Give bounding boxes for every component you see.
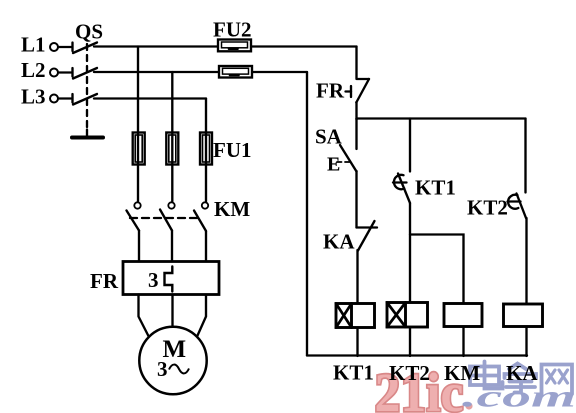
- time relay KT1 delayed NO contact: [393, 174, 410, 204]
- wire FR box to motor middle: [171, 295, 173, 328]
- watermark 21ic.com 电子网: [375, 362, 576, 413]
- wire KT1 branch from junction: [409, 119, 411, 172]
- terminal L1: [50, 43, 73, 52]
- wire phase L3 horizontal: [94, 97, 206, 99]
- wire phase L1 to control corner: [251, 45, 357, 47]
- contactor KM linkage (dashed): [130, 217, 200, 219]
- svg-text:L2: L2: [21, 58, 46, 82]
- svg-text:KT2: KT2: [389, 361, 430, 385]
- fuse FU2 pole 2: [219, 66, 252, 78]
- svg-text:3: 3: [148, 268, 159, 292]
- wire coil KT2 to bus: [409, 327, 411, 356]
- wire KT2 contact to coil KA: [525, 218, 527, 304]
- svg-text:FR: FR: [90, 269, 119, 293]
- contactor KM main contact pole 3: [194, 202, 208, 231]
- svg-text:QS: QS: [75, 20, 103, 44]
- svg-text:KT1: KT1: [415, 176, 456, 200]
- svg-text:KA: KA: [506, 361, 538, 385]
- svg-text:FU2: FU2: [213, 18, 252, 42]
- fuse FU1 pole 1: [133, 133, 145, 165]
- terminal L2: [50, 68, 73, 77]
- wire KM pole1 to FR box: [138, 231, 140, 262]
- thermal relay FR heater element symbol: [165, 267, 173, 292]
- wire drop phase 2: [171, 72, 173, 202]
- svg-text:KM: KM: [444, 361, 480, 385]
- motor M circle: [139, 327, 206, 394]
- wire SA to KA contact: [355, 171, 357, 228]
- svg-text:KT1: KT1: [333, 361, 374, 385]
- svg-text:3: 3: [157, 357, 168, 381]
- wire FR box to motor right: [196, 295, 207, 341]
- contactor KM main contact pole 1: [127, 202, 141, 230]
- fuse FU1 pole 2: [166, 133, 178, 165]
- wire bottom bus: [307, 354, 527, 356]
- wire control junction rail: [357, 117, 526, 119]
- fuse FU1 pole 3: [200, 133, 212, 165]
- wire coil KM to bus: [462, 327, 464, 357]
- wire drop phase 1: [137, 47, 139, 202]
- wire phase L1 horizontal: [94, 45, 218, 47]
- wire branch to KM coil: [410, 235, 464, 304]
- wire KT1 contact to coil KT2: [409, 203, 411, 303]
- wire FR contact to junction: [355, 102, 357, 120]
- coil KT1 (time relay with delay element): [336, 304, 375, 328]
- wire phase L2 horizontal: [94, 71, 219, 73]
- switch QS pole 3 blade: [73, 94, 97, 105]
- wire phase L2 to control corner: [252, 71, 307, 73]
- svg-text:KT2: KT2: [467, 196, 508, 220]
- svg-text:L1: L1: [21, 33, 46, 57]
- switch SA: [337, 119, 357, 172]
- coil KA: [504, 304, 543, 327]
- wire KT2 branch from junction: [524, 119, 526, 193]
- wire control branch from L1 down: [355, 47, 357, 79]
- switch QS linkage (dashed): [86, 44, 88, 130]
- wire FR box to motor left: [139, 295, 151, 341]
- svg-text:FR: FR: [316, 79, 345, 103]
- label 3~ (motor phases): [157, 357, 189, 381]
- fuse FU2 pole 1: [218, 40, 251, 52]
- svg-text:KM: KM: [214, 197, 250, 221]
- wire coil KT1 to bus: [356, 328, 358, 357]
- wire KM pole2 to FR box: [171, 231, 173, 262]
- wire coil KA to bus: [525, 327, 527, 357]
- svg-text:SA: SA: [315, 125, 343, 149]
- wire KM pole3 to FR box: [205, 231, 207, 262]
- svg-text:FU1: FU1: [213, 138, 252, 162]
- svg-text:E: E: [327, 154, 340, 176]
- wire neutral rail left: [306, 72, 308, 356]
- thermal relay FR NC contact (control): [346, 79, 370, 103]
- coil KT2 (time relay with delay element): [387, 303, 428, 328]
- switch QS pole 2 blade: [73, 68, 97, 79]
- terminal L3: [50, 94, 73, 103]
- time relay KT2 delayed NO contact: [508, 194, 527, 219]
- coil KM: [444, 304, 482, 327]
- switch QS handle bar: [72, 130, 103, 138]
- relay KA NC contact: [357, 221, 378, 251]
- wire drop phase 3: [205, 99, 207, 202]
- svg-text:L3: L3: [21, 85, 46, 109]
- contactor KM main contact pole 2: [160, 202, 175, 230]
- thermal relay FR heater box: [123, 262, 219, 295]
- switch QS pole 1 blade: [73, 43, 97, 54]
- svg-text:KA: KA: [323, 230, 355, 254]
- wire KA contact to coil KT1: [356, 250, 358, 304]
